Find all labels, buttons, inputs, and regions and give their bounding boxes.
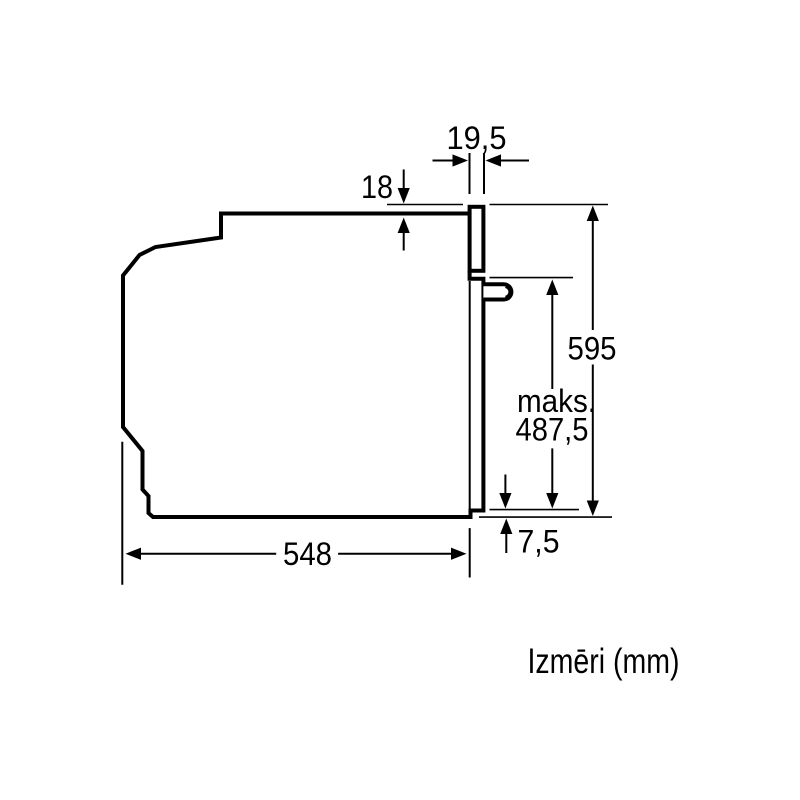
svg-text:18: 18 — [361, 169, 393, 205]
svg-text:7,5: 7,5 — [518, 524, 560, 560]
svg-text:Izmēri (mm): Izmēri (mm) — [528, 642, 680, 681]
svg-text:548: 548 — [283, 536, 332, 572]
svg-text:19,5: 19,5 — [447, 120, 507, 156]
svg-text:595: 595 — [568, 331, 617, 367]
svg-text:487,5: 487,5 — [516, 412, 589, 448]
